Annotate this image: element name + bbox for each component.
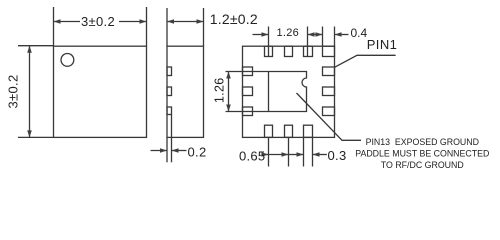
0.4 dim arrow left (outside)	[316, 32, 323, 37]
bottom view left pad 3	[243, 107, 253, 116]
side dim arrow left	[167, 19, 174, 24]
side view lead 3	[167, 107, 172, 115]
vert 1.26 arrow bottom	[226, 105, 231, 112]
left dim arrow bottom	[27, 130, 32, 137]
0.65 ext line 1 (pad1 center)	[268, 137, 270, 166]
0.4 ext corner pad left edge up	[322, 27, 324, 47]
0.4 ext pkg right edge up	[334, 27, 336, 47]
vert 1.26 arrow top	[226, 72, 231, 79]
lead thickness ext line left	[166, 137, 168, 162]
vert 1.26 dim line	[228, 72, 230, 112]
bottom view outline	[243, 46, 335, 137]
side dim arrow right	[197, 19, 204, 24]
left dim arrow top	[27, 46, 32, 53]
lead thickness arrow left	[151, 150, 168, 152]
0.3 arrow right (outside)	[313, 154, 327, 156]
svg-text:PIN13 EXPOSED GROUND: PIN13 EXPOSED GROUND	[366, 137, 479, 147]
exposed paddle with notch (top/bottom edges extend left as 1.26 ext lines)	[226, 72, 307, 112]
0.3 ext line left (pad3 left)	[303, 137, 305, 166]
side view lead 2	[167, 87, 172, 96]
top dim extension line left	[53, 7, 55, 46]
bottom view bottom pad 3	[304, 125, 313, 137]
0.3 ext line right (pad3 right)	[312, 137, 314, 166]
pin1 corner pad	[323, 46, 335, 56]
paddle leader line	[297, 93, 362, 140]
lead thickness arrow right	[172, 150, 187, 152]
side dim extension line right	[203, 8, 205, 46]
0.65 ext line 2 (pad2 center)	[288, 137, 290, 166]
side view lead 1	[167, 67, 172, 76]
bottom view left pad 1	[243, 67, 253, 76]
svg-text:1.26: 1.26	[276, 27, 299, 39]
svg-text:0.3: 0.3	[328, 148, 347, 163]
left dim extension line top	[18, 45, 54, 47]
top view package outline	[54, 46, 147, 137]
1.26 horiz dim arrow left (outside)	[253, 34, 269, 36]
top dim extension line right	[146, 7, 148, 46]
svg-text:0.2: 0.2	[188, 145, 207, 160]
0.65 arrow at ext2	[269, 154, 289, 156]
bottom view right pad 3	[323, 107, 335, 116]
svg-text:TO RF/DC GROUND: TO RF/DC GROUND	[381, 160, 464, 170]
top dim line right segment	[119, 21, 147, 23]
0.3 arrow left (outside)	[289, 154, 304, 156]
lead thickness ext line right	[171, 115, 173, 163]
1.26 horiz ext line right	[307, 27, 309, 57]
paddle left edge	[268, 72, 270, 112]
top dim arrow left	[54, 19, 61, 24]
svg-text:1.2±0.2: 1.2±0.2	[210, 11, 258, 27]
top dim line left segment	[54, 21, 81, 23]
side view body	[167, 46, 204, 137]
bottom view right pad 1	[323, 67, 335, 76]
left dim extension line bottom	[18, 136, 54, 138]
PIN1 leader line	[335, 55, 396, 67]
bottom view left pad 2	[243, 87, 253, 96]
bottom view bottom pad 2	[285, 125, 293, 137]
svg-text:1.26: 1.26	[212, 78, 226, 104]
svg-text:3±0.2: 3±0.2	[81, 14, 115, 29]
pin1 marker circle	[61, 54, 74, 67]
1.26 horiz ext line left	[268, 27, 270, 57]
side dim extension line left	[166, 8, 168, 46]
0.65 arrow at ext1	[265, 154, 269, 156]
svg-text:PADDLE MUST BE CONNECTED: PADDLE MUST BE CONNECTED	[355, 149, 489, 159]
bottom view bottom pad 1	[265, 125, 273, 137]
bottom view top pad 1	[265, 46, 273, 56]
0.4 dim arrow right (outside)	[335, 34, 349, 36]
side dim line	[167, 21, 204, 23]
bottom view top pad 2	[285, 46, 293, 56]
svg-text:0.65: 0.65	[239, 149, 266, 164]
svg-text:0.4: 0.4	[350, 26, 367, 40]
left dim line	[29, 46, 31, 138]
bottom view right pad 2	[323, 87, 335, 96]
bottom view top pad 3	[304, 46, 313, 56]
svg-text:3±0.2: 3±0.2	[6, 75, 21, 109]
1.26 horiz dim arrow right (outside)	[308, 34, 323, 36]
svg-text:PIN1: PIN1	[367, 37, 398, 52]
top dim arrow right	[140, 19, 147, 24]
